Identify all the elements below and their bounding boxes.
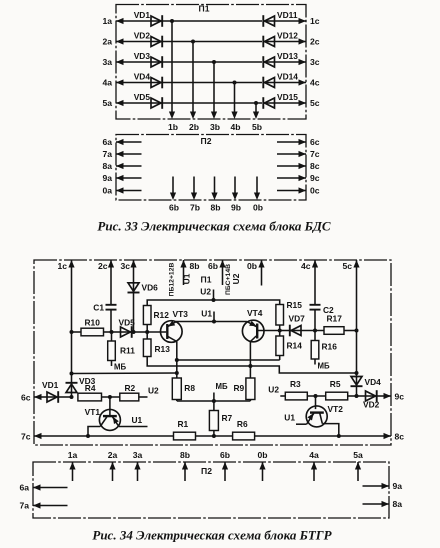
wire 8b stub: [183, 260, 185, 285]
node VT1 collector on 7c row: [86, 434, 90, 438]
resistor R10: [72, 318, 112, 336]
node 1c cross-coupling junction: [70, 372, 74, 376]
wire R3 to VT2 base node: [307, 395, 325, 397]
transistor VT1: [85, 397, 121, 430]
terminal 1c arrow up: [57, 260, 74, 271]
node U1 rail stub: [201, 309, 216, 324]
svg-text:R10: R10: [85, 318, 101, 328]
svg-text:7a: 7a: [19, 501, 29, 511]
diode VD15: [263, 92, 298, 109]
terminal 5a arrow up (П2 fig34): [353, 450, 363, 481]
wire 2c vertical upper: [110, 260, 112, 304]
svg-text:1a: 1a: [68, 450, 78, 460]
svg-text:VD15: VD15: [277, 92, 298, 102]
svg-text:8c: 8c: [395, 432, 405, 442]
node C1/R11 junction: [110, 330, 114, 334]
resistor R4: [78, 383, 102, 401]
wire VT2 collector to 8c row: [322, 424, 339, 436]
svg-text:5c: 5c: [342, 261, 352, 271]
wire VD4 cathode to VD14 cathode: [163, 82, 263, 84]
wire VD13 to terminal 3c: [275, 61, 307, 63]
wire tap 5b vertical: [255, 103, 257, 113]
terminal 0b arrow up (П2 fig34): [257, 450, 267, 481]
terminal 4c arrow: [299, 77, 320, 87]
resistor R15: [276, 300, 302, 331]
wire row 1: [116, 20, 152, 22]
svg-text:3b: 3b: [210, 122, 220, 132]
svg-text:VD2: VD2: [134, 30, 151, 40]
wire VD15 to terminal 5c: [275, 102, 307, 104]
transistor VT3: [161, 309, 189, 342]
terminal 2b arrow down: [189, 112, 199, 133]
node VT3 collector / 1c line: [175, 371, 179, 375]
node C2/R16 junction: [313, 329, 317, 333]
svg-text:5b: 5b: [252, 122, 262, 132]
terminal 2a arrow: [102, 36, 123, 46]
terminal 3a arrow: [102, 57, 123, 67]
capacitor C2: [310, 305, 335, 315]
svg-text:2b: 2b: [189, 122, 199, 132]
transistor VT2: [306, 396, 343, 427]
svg-text:4b: 4b: [230, 122, 240, 132]
wire VD5 cathode to VD15 cathode: [163, 102, 263, 104]
terminal 4a arrow up (П2 fig34): [309, 450, 319, 481]
resistor R11: [108, 332, 136, 366]
svg-text:R3: R3: [290, 379, 301, 389]
node row 4 tap junction: [233, 81, 237, 85]
wire VD11 to terminal 1c: [275, 20, 307, 22]
wire 2c vertical lower: [110, 310, 112, 332]
wire tap 1b vertical: [171, 21, 173, 113]
svg-text:Рис. 34 Электрическая схема бл: Рис. 34 Электрическая схема блока БТГР: [92, 528, 332, 543]
svg-text:R9: R9: [234, 383, 245, 393]
diode VD1: [34, 380, 59, 403]
node row 3 tap junction: [212, 60, 216, 64]
resistor R17: [324, 314, 357, 335]
node VT3 collector / rail A: [175, 358, 179, 362]
svg-text:П1: П1: [201, 275, 212, 285]
resistor R2: [120, 383, 139, 401]
svg-text:R7: R7: [222, 413, 233, 423]
wire VT4 base: [257, 330, 280, 332]
node row 2 tap junction: [191, 40, 195, 44]
diode VD4: [134, 71, 163, 88]
diode VD7: [280, 314, 305, 337]
svg-text:U2: U2: [148, 386, 159, 396]
svg-text:П1: П1: [199, 4, 210, 14]
svg-text:1b: 1b: [168, 122, 178, 132]
net name U1 vertical: [182, 273, 192, 284]
terminal 2c arrow: [299, 36, 320, 46]
svg-text:7a: 7a: [102, 149, 112, 159]
svg-text:VT4: VT4: [247, 308, 263, 318]
wire row 3: [116, 61, 152, 63]
svg-text:R11: R11: [120, 346, 135, 356]
svg-text:VD1: VD1: [42, 380, 59, 390]
terminal 8c arrow: [384, 432, 405, 442]
diode VD5: [134, 92, 163, 109]
terminal 8b arrow down: [210, 177, 220, 213]
diode VD14: [263, 71, 298, 88]
node VT3 base divider: [145, 330, 149, 334]
node VT4 base divider: [278, 329, 282, 333]
svg-text:VD6: VD6: [142, 283, 159, 293]
terminal 8b arrow up: [180, 260, 199, 271]
svg-text:8b: 8b: [190, 261, 200, 271]
terminal 4b arrow down: [230, 112, 240, 133]
node row 1 tap junction: [170, 19, 174, 23]
resistor R12: [143, 306, 169, 333]
net name U2 vertical: [231, 273, 241, 284]
wire 5c vertical: [356, 260, 358, 377]
terminal 7a arrow and stub: [102, 149, 141, 159]
svg-text:П2: П2: [201, 136, 212, 146]
rail U1 (emitters): [176, 321, 247, 323]
wire R13 to VT4 collector (cross-coupling): [147, 357, 356, 374]
svg-text:4c: 4c: [310, 77, 320, 87]
svg-text:R14: R14: [287, 341, 303, 351]
wire VD1 to VD3 node: [59, 396, 72, 398]
caption Рис. 33: [97, 219, 331, 234]
svg-text:МБ: МБ: [216, 382, 228, 391]
svg-text:6c: 6c: [310, 137, 320, 147]
rail U2 (upper): [147, 300, 280, 306]
net U2 right: [268, 385, 279, 395]
terminal 1a arrow up (П2 fig34): [68, 450, 78, 481]
terminal 9c arrow and stub: [277, 173, 320, 183]
terminal 8a arrow: [363, 499, 403, 509]
wire VD12 to terminal 2c: [275, 41, 307, 43]
wire VD2 to terminal 9c: [377, 395, 391, 397]
terminal 7c arrow: [21, 432, 42, 442]
terminal 9b arrow down: [231, 177, 241, 213]
svg-text:ПБ12+12В: ПБ12+12В: [169, 263, 176, 297]
node 5c cross-coupling junction: [355, 371, 359, 375]
wire R4 to VT1 base node: [102, 396, 120, 398]
terminal 4a arrow: [102, 77, 123, 87]
svg-text:6a: 6a: [19, 483, 29, 493]
node 5c/R17 junction: [355, 329, 359, 333]
terminal 6a arrow: [19, 483, 67, 493]
wire VT3 collector vertical: [176, 342, 178, 379]
wire 7c row left: [34, 435, 174, 437]
svg-text:0a: 0a: [102, 185, 112, 195]
svg-text:3a: 3a: [133, 450, 143, 460]
wire R2 to net U2: [139, 386, 159, 398]
svg-text:9c: 9c: [310, 173, 320, 183]
terminal 9a arrow and stub: [102, 173, 141, 183]
connector block П2 (fig34) outline: [33, 462, 389, 518]
diode VD2: [357, 390, 380, 409]
wire VT3 base: [147, 331, 166, 333]
svg-text:6b: 6b: [169, 203, 179, 213]
resistor R1: [174, 419, 196, 440]
wire 4c vertical upper: [314, 260, 316, 304]
wire R6 to terminal 8c: [255, 435, 391, 437]
terminal 5c arrow up: [342, 260, 359, 271]
wire 6b stub: [222, 260, 224, 285]
svg-text:5a: 5a: [353, 450, 363, 460]
terminal 6a arrow and stub: [102, 137, 141, 147]
svg-text:4a: 4a: [309, 450, 319, 460]
svg-text:R16: R16: [322, 342, 338, 352]
net МБ under R11: [114, 363, 126, 372]
diode VD1: [134, 10, 163, 27]
resistor R13: [143, 332, 170, 357]
wire R5 to VD4 node: [348, 395, 357, 397]
diode VD3: [66, 374, 96, 398]
node cross-coupling at VT4 collector: [248, 364, 252, 368]
svg-text:VD7: VD7: [289, 314, 306, 324]
svg-text:VT2: VT2: [328, 404, 344, 414]
svg-text:U1: U1: [132, 415, 143, 425]
wire VT1 emitter to net U1: [119, 415, 148, 427]
svg-text:VD5: VD5: [119, 318, 136, 328]
svg-text:1a: 1a: [102, 16, 112, 26]
diode VD2: [134, 30, 163, 47]
terminal 6c arrow and stub: [277, 137, 320, 147]
resistor R9: [234, 378, 255, 400]
resistor R8: [172, 378, 195, 400]
svg-text:8b: 8b: [210, 203, 220, 213]
terminal 6b arrow down: [169, 177, 179, 213]
svg-text:VD2: VD2: [363, 400, 380, 410]
svg-text:VD1: VD1: [134, 10, 151, 20]
node VD3 junction: [70, 395, 74, 399]
svg-text:3c: 3c: [310, 57, 320, 67]
wire 1c vertical: [71, 260, 73, 374]
svg-text:5c: 5c: [310, 98, 320, 108]
svg-text:3a: 3a: [102, 57, 112, 67]
diode VD4: [351, 377, 382, 397]
terminal 7b arrow down: [190, 177, 200, 213]
diode VD3: [134, 51, 163, 68]
svg-text:2a: 2a: [108, 450, 118, 460]
svg-text:5a: 5a: [102, 98, 112, 108]
diode VD13: [263, 51, 298, 68]
net МБ at R7: [216, 382, 228, 391]
terminal 4c arrow up: [301, 260, 318, 271]
wire VD3 cathode to VD13 cathode: [163, 61, 263, 63]
wire VD14 to terminal 4c: [275, 82, 307, 84]
resistor R3: [285, 379, 307, 400]
svg-text:U2: U2: [200, 287, 211, 297]
label П2 (fig34): [201, 466, 212, 476]
svg-text:МБ: МБ: [318, 362, 330, 371]
svg-text:VD11: VD11: [277, 10, 298, 20]
svg-text:6c: 6c: [21, 393, 31, 403]
terminal 3c arrow: [299, 57, 320, 67]
svg-text:9a: 9a: [102, 173, 112, 183]
net name ПБС+14В vertical: [225, 264, 232, 295]
svg-text:МБ: МБ: [114, 363, 126, 372]
diode VD12: [263, 30, 298, 47]
node 1c/R10 junction: [70, 330, 74, 334]
capacitor C1: [93, 303, 116, 313]
resistor R7: [209, 401, 232, 436]
svg-text:0b: 0b: [247, 261, 257, 271]
block БТГР outline: [34, 260, 391, 445]
terminal 1b arrow down: [168, 112, 178, 133]
svg-text:3c: 3c: [120, 261, 130, 271]
svg-text:VD5: VD5: [134, 92, 151, 102]
svg-text:0b: 0b: [253, 203, 263, 213]
svg-text:VD3: VD3: [134, 51, 151, 61]
terminal 2a arrow up (П2 fig34): [108, 450, 118, 481]
terminal 0a arrow and stub: [102, 185, 141, 195]
svg-text:VD12: VD12: [277, 30, 298, 40]
node U2 rail stub: [200, 287, 215, 303]
terminal 3b arrow down: [210, 112, 220, 133]
terminal 6b arrow up (П2 fig34): [220, 450, 230, 481]
node VD4 junction: [355, 394, 359, 398]
terminal 5b arrow down: [252, 112, 262, 133]
svg-text:0b: 0b: [257, 450, 267, 460]
transistor VT4: [242, 308, 264, 342]
diode VD11: [263, 10, 298, 27]
label П2 (fig33): [201, 136, 212, 146]
terminal 5a arrow: [102, 98, 123, 108]
terminal 0c arrow and stub: [277, 185, 320, 195]
node VT2 collector on 8c row: [337, 434, 341, 438]
wire VD7 to R17: [301, 330, 325, 332]
wire rail A (VT3 collector to R14): [177, 359, 280, 361]
diode VD5: [112, 318, 136, 338]
resistor R6: [233, 419, 255, 440]
wire VT1 collector to 7c row: [88, 427, 100, 437]
terminal 5c arrow: [299, 98, 320, 108]
svg-text:U2: U2: [231, 273, 241, 284]
terminal 2c arrow up: [98, 260, 114, 271]
svg-text:C1: C1: [93, 303, 104, 313]
svg-text:4c: 4c: [301, 261, 311, 271]
svg-text:R15: R15: [287, 300, 303, 310]
wire VD5 to VT3 base node: [132, 331, 147, 333]
node row 5 tap junction: [254, 101, 258, 105]
svg-text:R13: R13: [155, 344, 171, 354]
svg-text:7c: 7c: [310, 149, 320, 159]
wire 0b stub: [261, 260, 263, 286]
terminal 1a arrow: [102, 16, 123, 26]
svg-text:0c: 0c: [310, 185, 320, 195]
terminal 6b arrow up: [208, 260, 226, 271]
svg-text:U2: U2: [268, 385, 279, 395]
svg-text:R6: R6: [237, 419, 248, 429]
svg-text:8a: 8a: [102, 161, 112, 171]
net МБ under R16: [318, 362, 330, 371]
resistor R5: [326, 379, 348, 400]
svg-text:1c: 1c: [57, 261, 67, 271]
wire tap 2b vertical: [192, 42, 194, 114]
svg-text:9a: 9a: [393, 481, 403, 491]
svg-text:9c: 9c: [395, 392, 405, 402]
terminal 6c arrow: [21, 393, 42, 403]
svg-text:9b: 9b: [231, 203, 241, 213]
svg-text:6b: 6b: [220, 450, 230, 460]
svg-text:VD13: VD13: [277, 51, 298, 61]
connector block П1 outline: [116, 5, 306, 120]
svg-text:R4: R4: [85, 383, 96, 393]
svg-text:1c: 1c: [310, 16, 320, 26]
svg-text:4a: 4a: [102, 77, 112, 87]
svg-text:R2: R2: [125, 383, 136, 393]
wire tap 4b vertical: [234, 83, 236, 114]
svg-text:VT3: VT3: [173, 309, 189, 319]
terminal 1c arrow: [299, 16, 320, 26]
resistor R16: [311, 331, 337, 365]
terminal 7a arrow: [19, 501, 67, 511]
svg-text:8b: 8b: [180, 450, 190, 460]
terminal 0b arrow up: [247, 260, 265, 271]
svg-text:R17: R17: [327, 314, 343, 324]
wire U2 to R3: [280, 395, 285, 397]
connector block П2 outline: [116, 135, 306, 201]
svg-text:2c: 2c: [310, 36, 320, 46]
svg-text:VD4: VD4: [365, 377, 382, 387]
svg-text:R5: R5: [330, 379, 341, 389]
svg-text:8a: 8a: [393, 499, 403, 509]
wire R8/R9 common: [177, 400, 251, 402]
svg-text:VD14: VD14: [277, 71, 298, 81]
svg-text:VT1: VT1: [85, 407, 101, 417]
terminal 8b arrow up (П2 fig34): [180, 450, 190, 481]
svg-text:R1: R1: [178, 419, 189, 429]
wire VT4 collector vertical: [249, 342, 251, 379]
wire VT2 emitter to net U1: [284, 413, 306, 425]
svg-text:6b: 6b: [208, 261, 218, 271]
terminal 9c arrow: [384, 392, 405, 402]
svg-text:R8: R8: [184, 383, 195, 393]
svg-text:7c: 7c: [21, 432, 31, 442]
wire row 5: [116, 102, 152, 104]
svg-text:U1: U1: [284, 413, 295, 423]
terminal 9a arrow: [363, 481, 403, 491]
caption Рис. 34: [92, 528, 332, 543]
terminal 7c arrow and stub: [277, 149, 320, 159]
node R7 top junction: [212, 393, 216, 404]
wire VD2 cathode to VD12 cathode: [163, 41, 263, 43]
diode VD6: [128, 283, 159, 293]
wire 3c vertical upper: [133, 260, 135, 284]
wire 4c vertical lower: [314, 310, 316, 330]
terminal 8c arrow and stub: [277, 161, 320, 171]
wire R1 to R6: [196, 435, 233, 437]
terminal 3c arrow up: [120, 260, 136, 271]
wire tap 3b vertical: [213, 62, 215, 113]
terminal 3a arrow up (П2 fig34): [133, 450, 143, 481]
svg-text:2c: 2c: [98, 261, 108, 271]
svg-text:7b: 7b: [190, 203, 200, 213]
wire 1c to VT3 collector: [72, 372, 177, 375]
label П1: [199, 4, 210, 14]
net name ПБ12+12В vertical: [169, 263, 176, 297]
svg-text:2a: 2a: [102, 36, 112, 46]
terminal 0b arrow down: [253, 177, 263, 213]
svg-text:U1: U1: [201, 309, 212, 319]
wire row 4: [116, 82, 152, 84]
svg-text:Рис. 33 Электрическая схема бл: Рис. 33 Электрическая схема блока БДС: [97, 219, 331, 234]
svg-text:VD4: VD4: [134, 71, 151, 81]
node VD6 junction: [132, 330, 136, 334]
svg-text:П2: П2: [201, 466, 212, 476]
wire VD1 cathode to VD11 cathode: [163, 20, 263, 22]
node VT2 base: [314, 394, 318, 398]
terminal 8a arrow and stub: [102, 161, 141, 171]
wire row 2: [116, 41, 152, 43]
svg-text:8c: 8c: [310, 161, 320, 171]
label П1 (fig34): [201, 275, 212, 285]
node VT1 base: [108, 395, 112, 399]
